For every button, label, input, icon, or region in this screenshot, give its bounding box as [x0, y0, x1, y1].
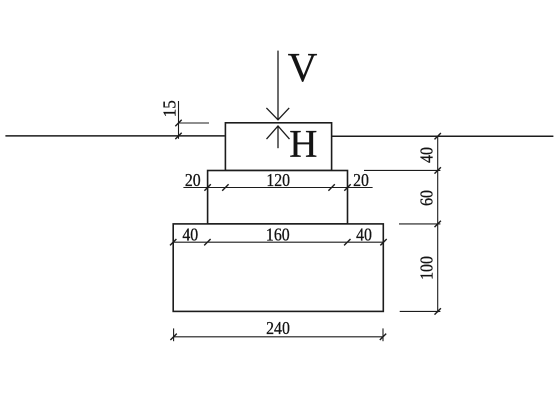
- right dimension chain line 40|60|100: [437, 136, 439, 313]
- dimension line 40|160|40 (bottom tier): [173, 241, 383, 243]
- svg-text:15: 15: [159, 100, 180, 117]
- dimension line 240 (overall width): [174, 336, 383, 338]
- tick marks for 240: [170, 334, 386, 340]
- ground line right: [332, 135, 554, 137]
- svg-text:160: 160: [266, 225, 290, 245]
- force arrow H (upward under column top): [267, 126, 290, 148]
- extension stubs at 240 line ends: [174, 328, 383, 341]
- dim text 160: [266, 225, 290, 245]
- label H: [289, 122, 317, 165]
- extension line at middle tier top level: [364, 169, 440, 171]
- dim text 40 (right chain): [416, 147, 436, 163]
- tick marks for dimension 15: [175, 120, 181, 139]
- dim text 240: [266, 318, 290, 338]
- svg-text:120: 120: [266, 170, 290, 190]
- column (top tier) outline: [225, 123, 331, 171]
- svg-text:40: 40: [356, 225, 372, 245]
- dim text 15: [159, 100, 180, 117]
- dimension line 20|120|20 (middle tier): [183, 187, 372, 189]
- tick marks for 40|160|40: [170, 239, 387, 245]
- extension line at column top level: [179, 122, 210, 124]
- svg-text:40: 40: [416, 147, 436, 163]
- extension line at footing bottom level: [400, 310, 441, 312]
- bottom tier (footing) outline: [173, 224, 383, 312]
- dim text 120: [266, 170, 290, 190]
- svg-text:40: 40: [182, 225, 198, 245]
- svg-text:V: V: [288, 44, 318, 90]
- svg-text:100: 100: [416, 256, 436, 280]
- dim text 40 (right): [356, 225, 372, 245]
- svg-text:240: 240: [266, 318, 290, 338]
- tick marks for 20|120|20: [204, 184, 350, 190]
- dim text 40 (left): [182, 225, 198, 245]
- svg-text:H: H: [289, 122, 317, 165]
- svg-text:20: 20: [353, 170, 369, 190]
- dim text 20 (right): [353, 170, 369, 190]
- svg-text:20: 20: [185, 170, 201, 190]
- svg-text:60: 60: [416, 190, 436, 206]
- middle tier outline: [208, 171, 348, 224]
- force arrow V line: [266, 51, 289, 120]
- dim text 20 (left): [185, 170, 201, 190]
- dim text 100 (right chain): [416, 256, 436, 280]
- extension line at bottom tier top level: [399, 223, 440, 225]
- ground line left: [5, 135, 224, 137]
- dim text 60 (right chain): [416, 190, 436, 206]
- label V: [288, 44, 318, 90]
- tick marks for right chain: [435, 133, 441, 315]
- dimension 15 line (left, vertical): [178, 101, 180, 139]
